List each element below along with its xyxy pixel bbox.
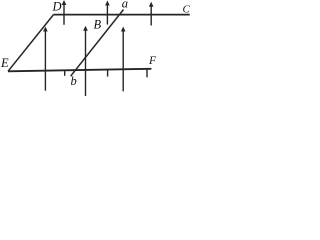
svg-text:F: F — [148, 55, 157, 67]
rod ab (slanted conductor) — [71, 10, 124, 77]
field arrow up through top line (middle) — [105, 1, 110, 25]
field arrow between lines (right, crosses bottom line) — [121, 27, 126, 92]
tick below bottom line (middle) — [107, 69, 109, 77]
wire left slant E to D corner — [8, 15, 54, 72]
svg-text:C: C — [183, 4, 191, 16]
svg-text:D: D — [52, 0, 62, 14]
svg-text:a: a — [122, 0, 128, 11]
rail line EF (bottom horizontal line) — [8, 69, 151, 72]
rail line DC (top horizontal line) — [54, 14, 190, 16]
field arrow up through top line (right) — [149, 2, 154, 26]
field arrow between lines (center, crosses bottom line) — [83, 26, 88, 96]
svg-text:b: b — [71, 74, 77, 88]
tick below bottom line (right) — [146, 69, 148, 78]
svg-text:B: B — [94, 18, 102, 32]
tick below bottom line (left) — [64, 70, 66, 76]
field arrow between lines (left, crosses bottom line) — [43, 27, 48, 91]
svg-text:E: E — [0, 56, 9, 70]
field arrow up through top line at D — [62, 0, 67, 25]
